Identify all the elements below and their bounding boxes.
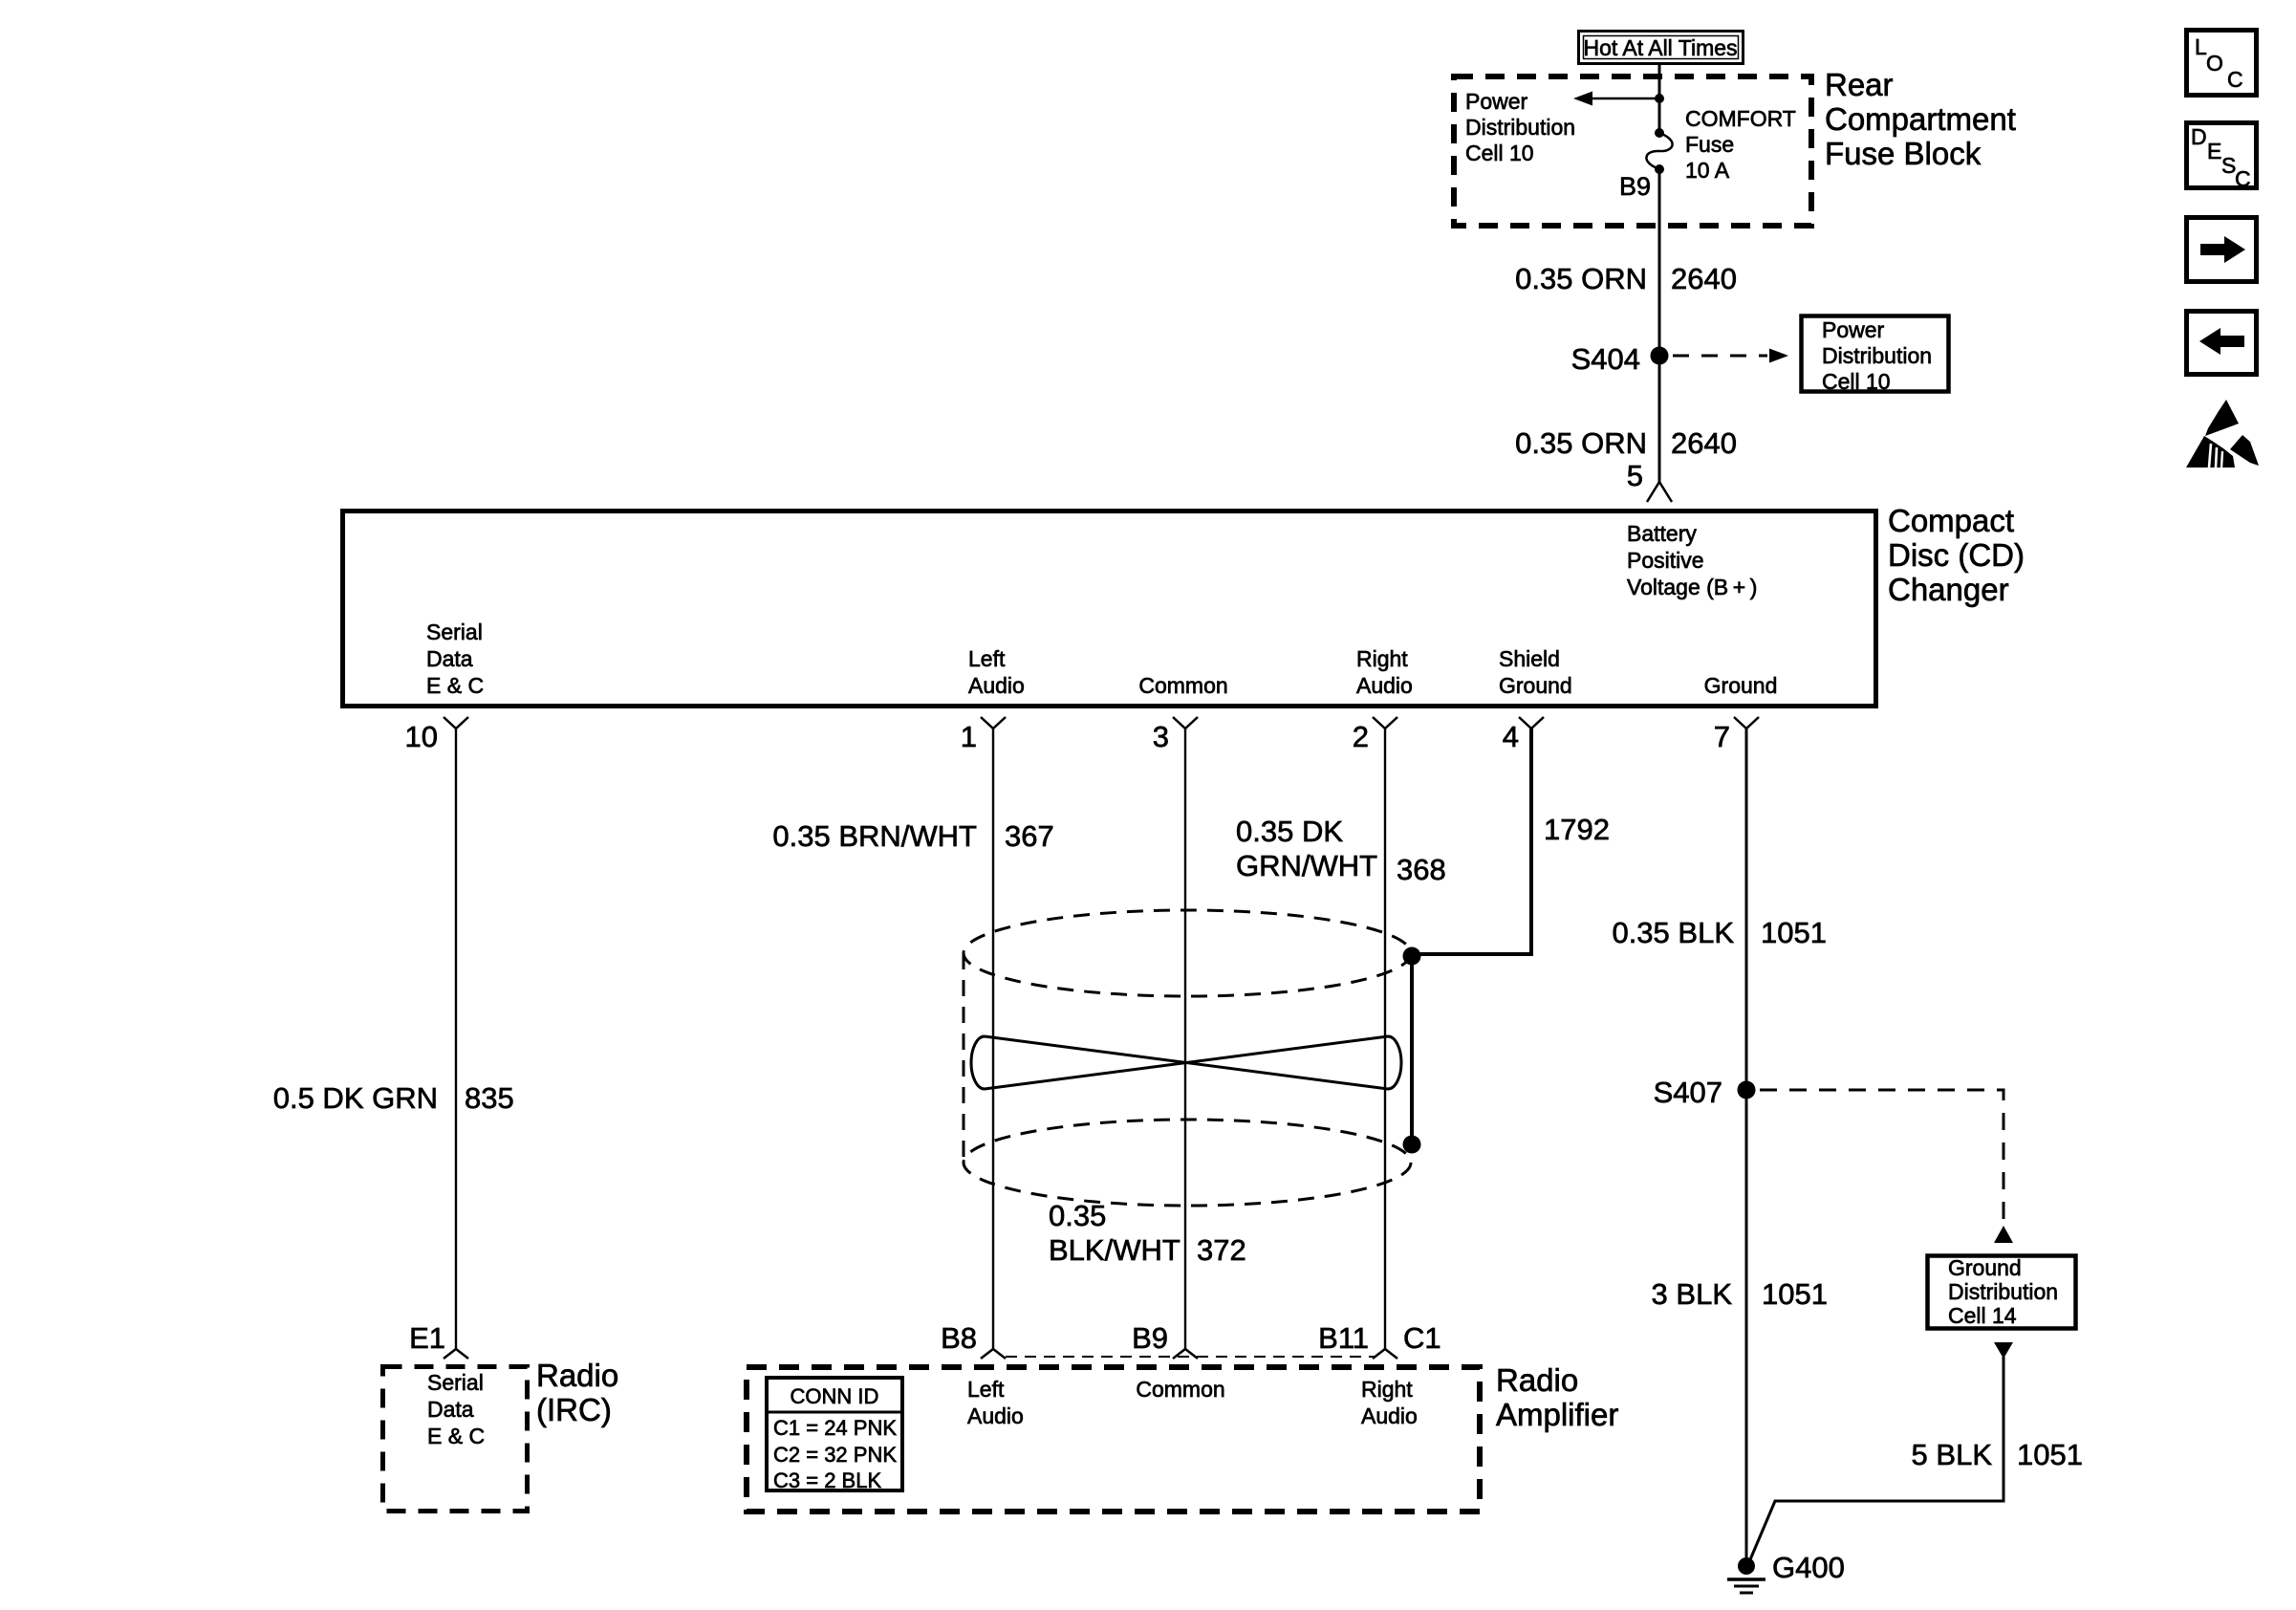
svg-text:1051: 1051 xyxy=(2017,1438,2083,1471)
dashed arrow S404 to Power Distribution xyxy=(1673,349,1788,363)
svg-text:Ground: Ground xyxy=(1704,673,1778,698)
svg-text:0.5 DK GRN: 0.5 DK GRN xyxy=(273,1081,438,1115)
svg-text:3: 3 xyxy=(1153,720,1169,753)
svg-text:D: D xyxy=(2191,124,2207,149)
splice S407 xyxy=(1738,1081,1756,1099)
svg-text:Ground: Ground xyxy=(1499,673,1572,698)
svg-text:1051: 1051 xyxy=(1762,1277,1828,1311)
wire pin10 to E1 (0.5 DK GRN) xyxy=(455,729,457,1349)
svg-text:0.35 BLK: 0.35 BLK xyxy=(1612,916,1734,949)
svg-text:Cell 14: Cell 14 xyxy=(1948,1303,2017,1328)
svg-text:Distribution: Distribution xyxy=(1465,115,1575,140)
connector E1 at Radio xyxy=(444,1349,468,1359)
Rear Compartment Fuse Block dashed box xyxy=(1454,76,1811,226)
wire pin3 to B9 (0.35 BLK/WHT) xyxy=(1184,729,1186,1349)
svg-text:7: 7 xyxy=(1714,720,1730,753)
svg-text:Compact: Compact xyxy=(1888,503,2014,538)
svg-text:835: 835 xyxy=(465,1081,514,1115)
svg-text:Serial: Serial xyxy=(427,1370,484,1395)
pin 4 connector xyxy=(1519,717,1544,729)
svg-text:GRN/WHT: GRN/WHT xyxy=(1236,849,1377,882)
svg-text:CONN ID: CONN ID xyxy=(791,1384,879,1408)
left arrow icon xyxy=(2199,328,2244,355)
svg-text:Fuse: Fuse xyxy=(1685,132,1734,157)
svg-text:Right: Right xyxy=(1361,1377,1413,1402)
fuse terminal dot top xyxy=(1655,128,1664,138)
svg-text:Common: Common xyxy=(1136,1377,1224,1402)
svg-text:0.35 BRN/WHT: 0.35 BRN/WHT xyxy=(772,819,977,853)
shield top ellipse (dashed) xyxy=(964,910,1411,996)
svg-text:B9: B9 xyxy=(1132,1321,1168,1355)
svg-text:E & C: E & C xyxy=(427,1424,485,1448)
svg-text:C1: C1 xyxy=(1403,1321,1441,1355)
shield bottom ellipse (dashed) xyxy=(964,1120,1411,1206)
svg-text:Disc (CD): Disc (CD) xyxy=(1888,537,2025,573)
svg-text:C: C xyxy=(2227,67,2243,92)
svg-text:0.35 ORN: 0.35 ORN xyxy=(1515,426,1647,460)
svg-text:C2 = 32 PNK: C2 = 32 PNK xyxy=(773,1443,897,1467)
svg-text:BLK/WHT: BLK/WHT xyxy=(1049,1233,1180,1267)
ground G400 symbol xyxy=(1727,1557,1765,1593)
svg-text:Right: Right xyxy=(1356,646,1408,671)
svg-text:1051: 1051 xyxy=(1761,916,1827,949)
fuse F COMFORT 10A symbol xyxy=(1646,133,1672,169)
Radio Amplifier dashed box xyxy=(747,1367,1480,1512)
svg-text:C1 = 24 PNK: C1 = 24 PNK xyxy=(773,1416,897,1440)
wire pin2 to B11 (0.35 DK GRN/WHT) xyxy=(1384,729,1386,1349)
wire pin4 shield drain (1792) xyxy=(1414,729,1531,954)
pin 10 connector xyxy=(444,717,468,729)
svg-text:Serial: Serial xyxy=(426,620,483,644)
connector B11 C1 xyxy=(1373,1349,1397,1359)
wire from Hot At All Times into fuse block xyxy=(1658,65,1661,133)
arrow into Ground Distribution xyxy=(1994,1226,2013,1243)
shield drain wire xyxy=(1410,956,1414,1144)
svg-text:Audio: Audio xyxy=(968,673,1025,698)
svg-text:Radio: Radio xyxy=(1496,1362,1578,1398)
svg-text:2640: 2640 xyxy=(1671,426,1737,460)
LOC icon box xyxy=(2187,31,2257,96)
svg-text:(IRC): (IRC) xyxy=(536,1392,612,1427)
splice S404 xyxy=(1651,347,1669,365)
svg-text:5: 5 xyxy=(1627,459,1643,492)
svg-text:Hot At All Times: Hot At All Times xyxy=(1583,35,1737,60)
svg-text:Audio: Audio xyxy=(967,1403,1024,1428)
svg-text:B9: B9 xyxy=(1619,172,1651,201)
svg-text:COMFORT: COMFORT xyxy=(1685,106,1796,131)
twisted pair symbol xyxy=(971,1036,1401,1089)
svg-text:2640: 2640 xyxy=(1671,262,1737,295)
svg-text:G400: G400 xyxy=(1772,1551,1845,1584)
junction node in fuse block xyxy=(1655,94,1664,103)
svg-text:C3 = 2 BLK: C3 = 2 BLK xyxy=(773,1469,881,1492)
svg-text:Cell 10: Cell 10 xyxy=(1465,141,1534,165)
svg-text:Audio: Audio xyxy=(1361,1403,1418,1428)
svg-text:2: 2 xyxy=(1353,720,1369,753)
svg-text:E1: E1 xyxy=(409,1321,445,1355)
svg-text:Power: Power xyxy=(1465,89,1528,114)
svg-text:Ground: Ground xyxy=(1948,1255,2022,1280)
svg-text:Power: Power xyxy=(1822,317,1885,342)
svg-text:Audio: Audio xyxy=(1356,673,1413,698)
connector B8 xyxy=(981,1349,1006,1359)
Hot At All Times label box xyxy=(1579,32,1744,64)
shield junction dot top xyxy=(1403,947,1421,966)
svg-text:E: E xyxy=(2207,139,2221,163)
svg-text:Voltage (B + ): Voltage (B + ) xyxy=(1627,575,1757,599)
svg-text:C: C xyxy=(2235,166,2251,191)
left arrow icon box xyxy=(2187,312,2257,375)
right arrow icon box xyxy=(2187,218,2257,282)
svg-text:Radio: Radio xyxy=(536,1358,618,1393)
connector dashed line B8-B11 xyxy=(1006,1356,1375,1358)
shield left side (dashed) xyxy=(963,953,965,1163)
svg-text:0.35 DK: 0.35 DK xyxy=(1236,815,1343,848)
svg-text:Fuse Block: Fuse Block xyxy=(1825,136,1982,171)
svg-text:367: 367 xyxy=(1005,819,1054,853)
ESD warning symbol xyxy=(2186,400,2259,468)
pin 5 connector xyxy=(1647,482,1672,502)
svg-text:Shield: Shield xyxy=(1499,646,1560,671)
svg-text:Cell 10: Cell 10 xyxy=(1822,369,1891,394)
Radio IRC dashed box xyxy=(383,1367,528,1512)
svg-text:368: 368 xyxy=(1397,853,1446,886)
svg-text:Data: Data xyxy=(426,646,473,671)
svg-text:E & C: E & C xyxy=(426,673,484,698)
svg-text:Compartment: Compartment xyxy=(1825,101,2016,137)
svg-text:Left: Left xyxy=(967,1377,1005,1402)
svg-text:Amplifier: Amplifier xyxy=(1496,1397,1618,1432)
wire Ground Distribution to G400 (5 BLK) xyxy=(1748,1357,2004,1564)
pin 7 connector xyxy=(1734,717,1759,729)
svg-text:Common: Common xyxy=(1138,673,1227,698)
right arrow icon xyxy=(2200,236,2245,263)
svg-text:Left: Left xyxy=(968,646,1006,671)
DESC icon box xyxy=(2187,123,2257,188)
Power Distribution Cell 10 box (right) xyxy=(1802,316,1949,392)
svg-text:4: 4 xyxy=(1503,720,1519,753)
wire pin7 ground (0.35 BLK / 3 BLK) xyxy=(1745,729,1748,1566)
svg-text:Battery: Battery xyxy=(1627,521,1697,546)
wire fuse to S404 xyxy=(1658,169,1661,356)
wire S404 to CD changer pin 5 xyxy=(1658,356,1661,483)
svg-text:B11: B11 xyxy=(1318,1321,1369,1355)
svg-text:Rear: Rear xyxy=(1825,67,1894,102)
wire pin1 to B8 (0.35 BRN/WHT) xyxy=(992,729,994,1349)
Compact Disc CD Changer box xyxy=(343,511,1876,707)
pin 3 connector xyxy=(1173,717,1198,729)
svg-text:10 A: 10 A xyxy=(1685,158,1730,183)
svg-text:1: 1 xyxy=(961,720,977,753)
fuse terminal dot bottom xyxy=(1655,164,1664,174)
svg-text:5 BLK: 5 BLK xyxy=(1912,1438,1993,1471)
svg-text:B8: B8 xyxy=(941,1321,977,1355)
svg-text:S404: S404 xyxy=(1571,342,1640,376)
svg-text:Distribution: Distribution xyxy=(1822,343,1932,368)
arrow out of Ground Distribution xyxy=(1994,1342,2013,1359)
svg-text:1792: 1792 xyxy=(1544,813,1610,846)
svg-text:3 BLK: 3 BLK xyxy=(1652,1277,1733,1311)
svg-text:Distribution: Distribution xyxy=(1948,1279,2058,1304)
svg-text:Data: Data xyxy=(427,1397,474,1422)
svg-text:Positive: Positive xyxy=(1627,548,1704,573)
Ground Distribution Cell 14 box xyxy=(1928,1256,2076,1329)
svg-text:372: 372 xyxy=(1197,1233,1246,1267)
CONN ID table xyxy=(767,1378,902,1490)
arrow to Power Distribution Cell 10 (left) xyxy=(1573,92,1659,106)
svg-text:0.35: 0.35 xyxy=(1049,1199,1106,1232)
svg-text:Changer: Changer xyxy=(1888,572,2009,607)
svg-text:S407: S407 xyxy=(1654,1076,1722,1109)
svg-text:0.35 ORN: 0.35 ORN xyxy=(1515,262,1647,295)
pin 2 connector xyxy=(1373,717,1397,729)
shield junction dot bottom xyxy=(1403,1136,1421,1154)
svg-text:10: 10 xyxy=(405,720,438,753)
svg-text:O: O xyxy=(2206,51,2223,76)
dashed wire S407 to Ground Distribution xyxy=(1760,1090,2004,1222)
pin 1 connector xyxy=(981,717,1006,729)
connector B9 xyxy=(1173,1349,1198,1359)
